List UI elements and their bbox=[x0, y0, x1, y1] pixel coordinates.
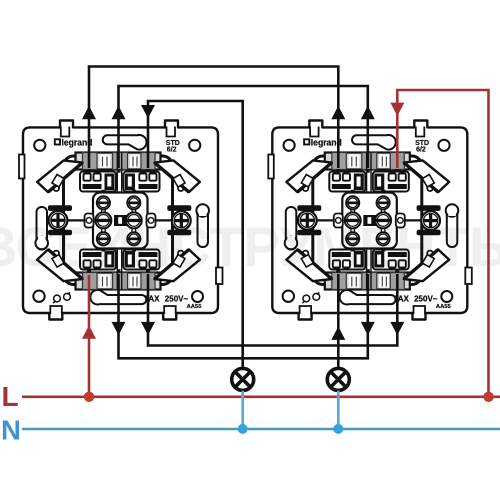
switch SW1 (left Legrand mechanism) bbox=[19, 121, 223, 320]
lamp E1 bbox=[232, 368, 254, 390]
junction dot blue N lamp E2 bbox=[333, 424, 343, 434]
wire bus1 SW1.T1 to SW2.T1 bbox=[89, 67, 338, 169]
arrow up SW2.T2 bbox=[361, 106, 375, 119]
svg-text:N: N bbox=[1, 415, 21, 446]
wire busA SW1.B3 to SW2.B3 bbox=[148, 274, 397, 346]
arrow down SW1.T3 bbox=[141, 105, 155, 118]
wire SW2.B1 to lamp E2 bbox=[337, 274, 340, 368]
wire busB SW1.B2 to SW2.B2 bbox=[119, 274, 368, 358]
N line bbox=[22, 428, 500, 431]
arrow up SW1.T2 bbox=[112, 106, 126, 119]
arrow down SW1.B2 bbox=[112, 322, 126, 335]
junction dot red L left bbox=[84, 392, 94, 402]
wire bus3 SW1.T3 to lamp E1 bbox=[148, 101, 243, 368]
arrow down red SW2.T3 bbox=[390, 103, 404, 116]
wire bus2 SW1.T2 to SW2.T2 bbox=[119, 86, 368, 168]
arrow up red SW1.B1 bbox=[82, 325, 96, 338]
arrow up SW2.T1 bbox=[331, 106, 345, 119]
arrow down SW1.B3 bbox=[141, 322, 155, 335]
red feed wire L to SW1.B1 bbox=[88, 275, 91, 397]
red feed wire L to SW2.T3 bbox=[397, 90, 488, 397]
blue wire lamp E2 to N bbox=[337, 391, 340, 429]
arrow down SW2.B2 bbox=[361, 322, 375, 335]
junction dot blue N lamp E1 bbox=[238, 424, 248, 434]
lamp E2 bbox=[327, 368, 349, 390]
svg-text:L: L bbox=[2, 381, 19, 412]
arrow up SW2.B1 bbox=[331, 327, 345, 340]
arrow down SW2.B3 bbox=[390, 322, 404, 335]
L line bbox=[22, 395, 500, 398]
switch SW2 (right Legrand mechanism) bbox=[268, 121, 472, 320]
junction dot red L right bbox=[483, 392, 493, 402]
svg-text:ВСЕИНСТРУМЕНТЫ: ВСЕИНСТРУМЕНТЫ bbox=[0, 215, 500, 278]
blue wire lamp E1 to N bbox=[241, 391, 244, 429]
arrow up SW1.T1 bbox=[82, 106, 96, 119]
